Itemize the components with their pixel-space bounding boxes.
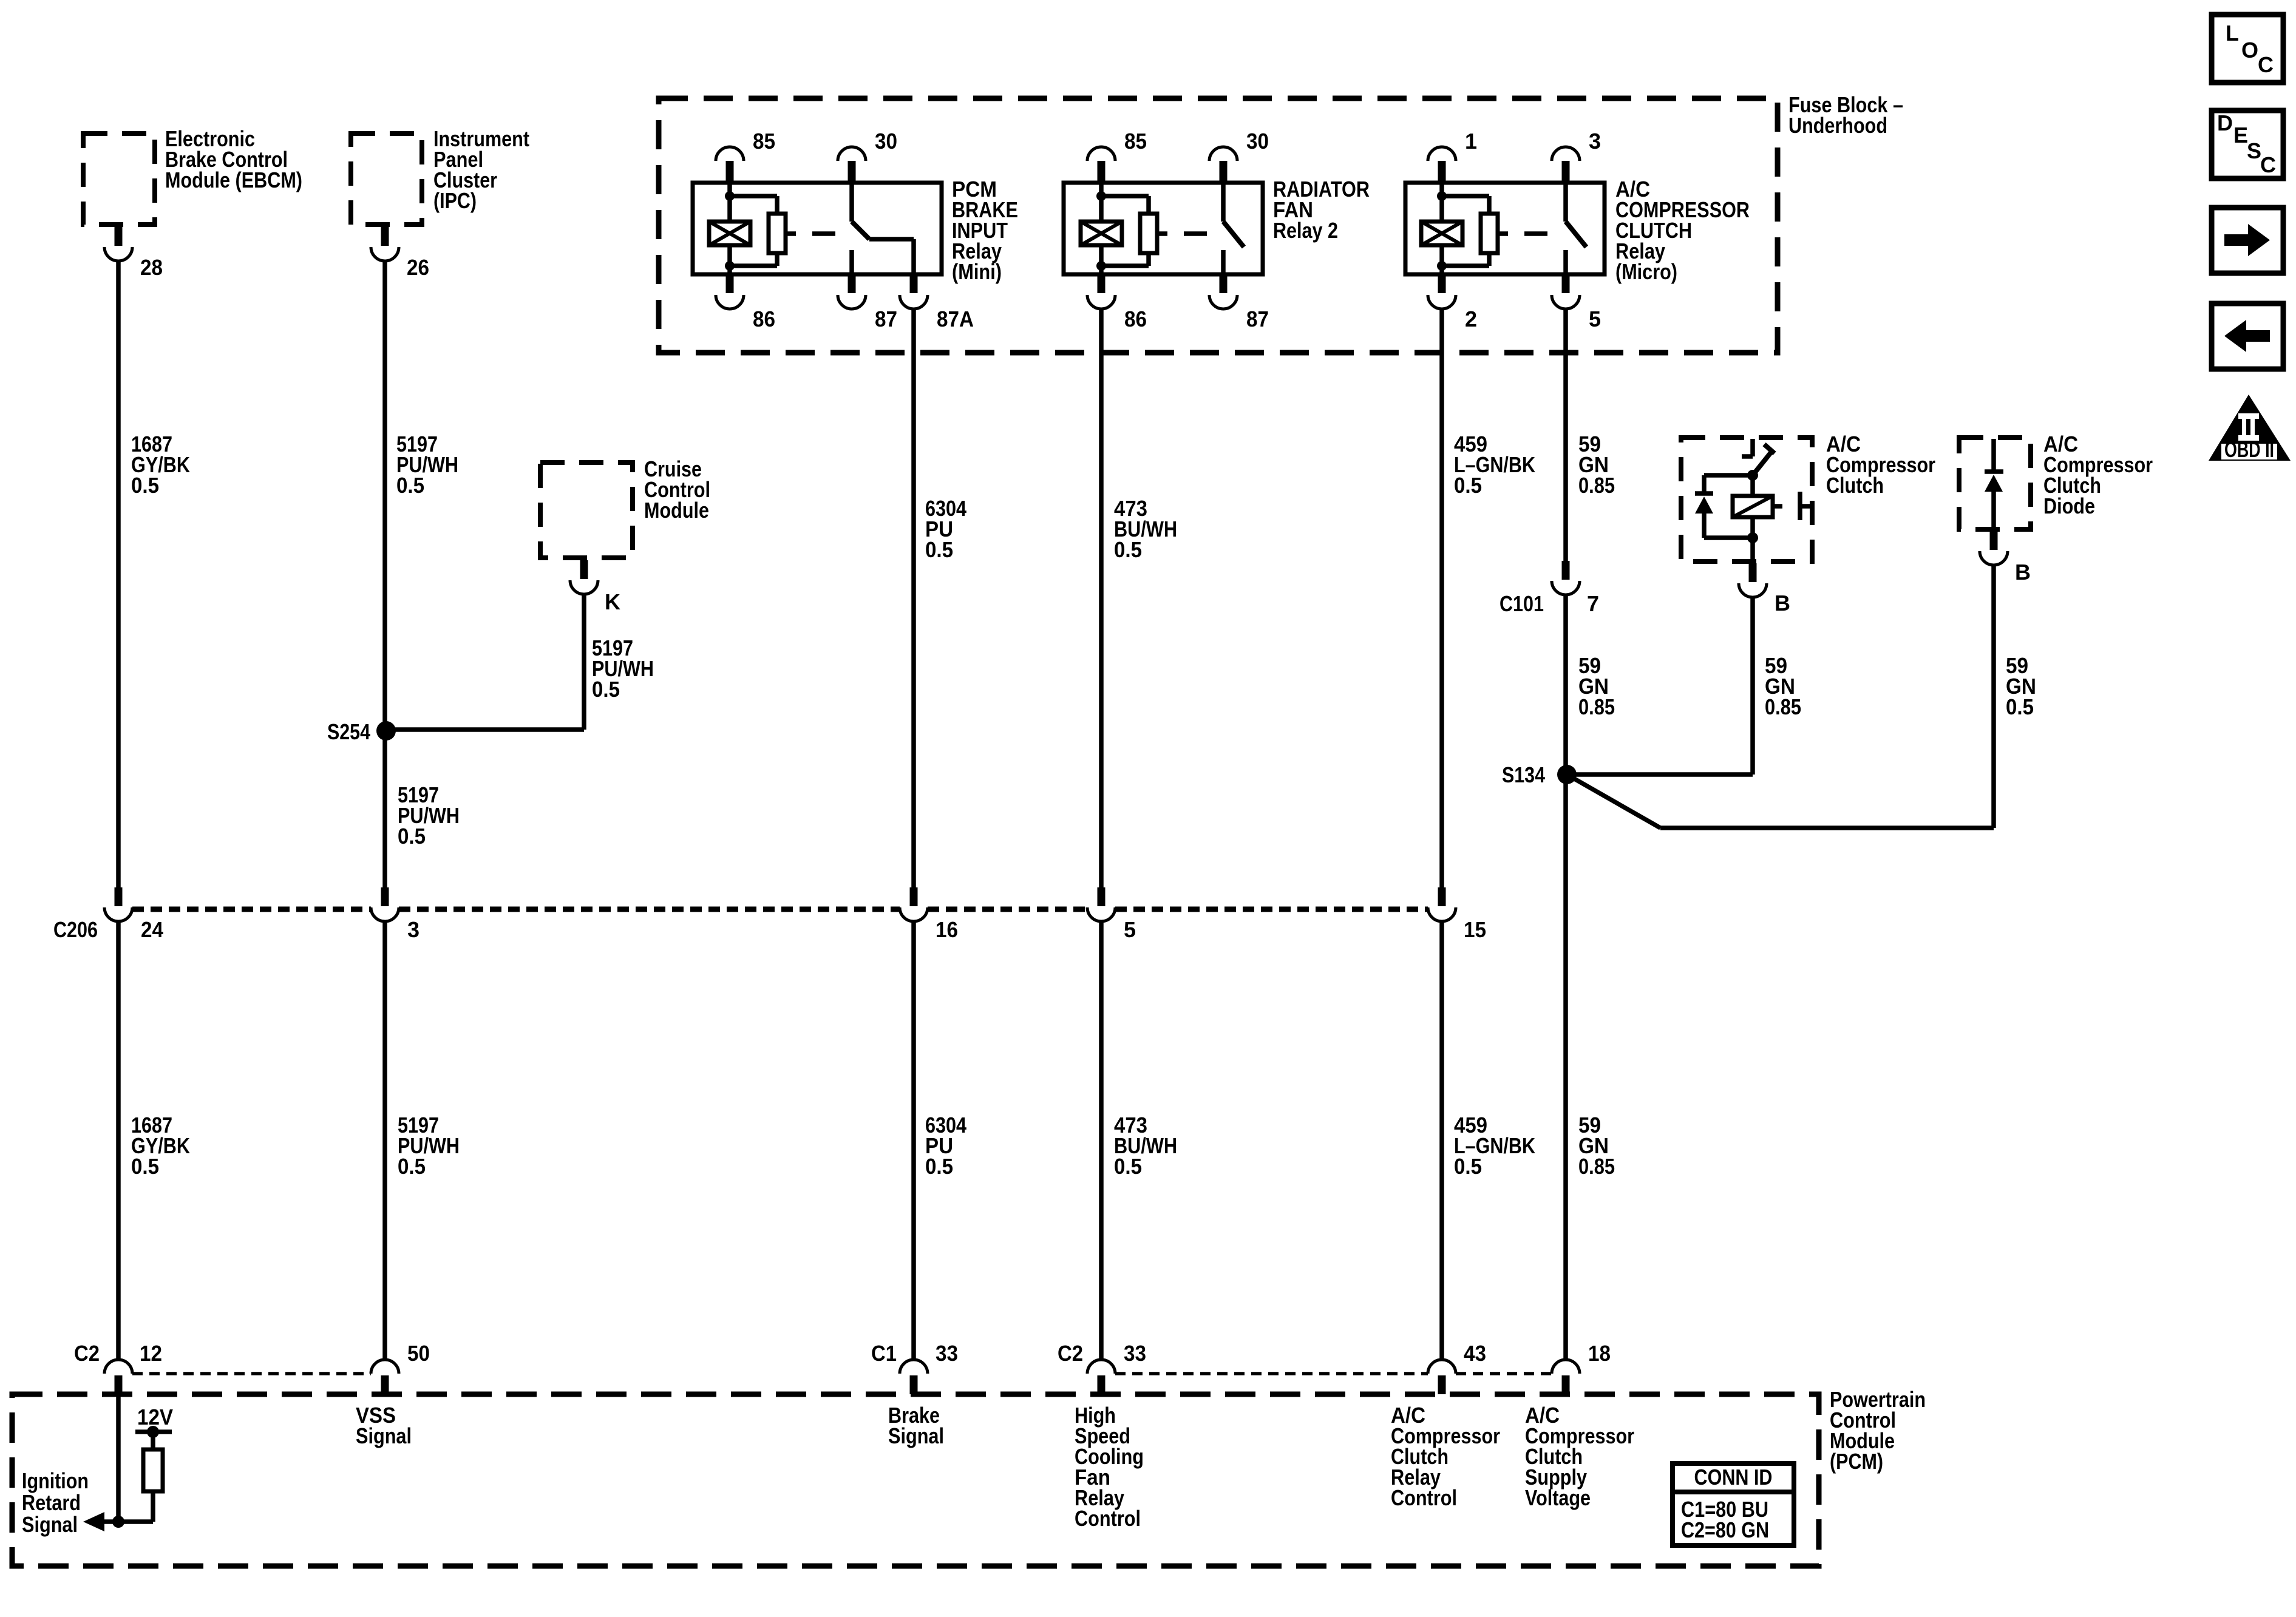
svg-text:86: 86 xyxy=(753,307,775,331)
module EBCM xyxy=(83,134,155,225)
pin 3 terminal xyxy=(1552,147,1580,161)
svg-text:85: 85 xyxy=(753,129,775,154)
svg-text:Underhood: Underhood xyxy=(1788,113,1887,138)
clutch frame tap xyxy=(1773,504,1782,509)
svg-text:28: 28 xyxy=(140,255,163,280)
relay switch RADIATOR FAN Relay 2 K2 xyxy=(1221,183,1226,222)
junction dots coil xyxy=(1437,191,1447,201)
svg-text:1: 1 xyxy=(1465,129,1477,154)
svg-text:2: 2 xyxy=(1465,307,1477,331)
relay resistor A/C COMPRESSOR CLUTCH Relay (Micro) K3 xyxy=(1442,194,1489,198)
wire 1687 GY/BK (EBCM to C206-24) xyxy=(116,260,121,887)
connector pin B (clutch) xyxy=(1749,563,1757,582)
svg-text:86: 86 xyxy=(1124,307,1147,331)
svg-text:C101: C101 xyxy=(1500,591,1544,616)
svg-text:Relay 2: Relay 2 xyxy=(1273,218,1338,243)
relay coil A/C COMPRESSOR CLUTCH Relay (Micro) K3 xyxy=(1439,183,1444,222)
diode symbol xyxy=(1991,439,1996,472)
svg-text:(Mini): (Mini) xyxy=(952,259,1002,284)
wire below C206 pin 5 xyxy=(1099,921,1104,1360)
connector C206 pin 5 xyxy=(1098,887,1106,906)
connector C206 pin 3 xyxy=(381,887,389,906)
svg-text:87A: 87A xyxy=(937,307,974,331)
pin 1 terminal xyxy=(1428,147,1456,161)
svg-text:Signal: Signal xyxy=(356,1423,412,1448)
connector C206 pin 15 xyxy=(1438,887,1446,906)
svg-text:CONN ID: CONN ID xyxy=(1694,1465,1773,1490)
pin 2 terminal xyxy=(1438,274,1446,293)
svg-text:0.5: 0.5 xyxy=(1114,1154,1142,1179)
relay: RADIATOR FAN Relay 2 K2 xyxy=(1064,183,1263,274)
svg-text:(IPC): (IPC) xyxy=(433,188,477,213)
svg-text:0.5: 0.5 xyxy=(925,537,953,562)
relay switch A/C COMPRESSOR CLUTCH Relay (Micro) K3 xyxy=(1563,183,1568,222)
PCM connector pin 12 xyxy=(104,1360,132,1374)
svg-text:S134: S134 xyxy=(1502,762,1545,787)
svg-text:Ignition: Ignition xyxy=(22,1468,89,1493)
svg-text:15: 15 xyxy=(1464,917,1486,942)
svg-text:43: 43 xyxy=(1464,1341,1486,1366)
linkage dash xyxy=(786,231,796,236)
clutch pin B xyxy=(1750,538,1755,563)
icon DESC xyxy=(2212,110,2283,178)
connector pin 28 (EBCM) xyxy=(115,227,123,246)
svg-text:85: 85 xyxy=(1124,129,1147,154)
svg-text:16: 16 xyxy=(936,917,958,942)
svg-text:12V: 12V xyxy=(137,1405,173,1429)
PCM connector pin 33 xyxy=(1087,1360,1115,1374)
svg-text:C206: C206 xyxy=(53,917,98,942)
pin 86 terminal xyxy=(1098,274,1106,293)
svg-text:0.5: 0.5 xyxy=(398,824,426,849)
icon OBD II triangle xyxy=(2209,395,2291,461)
svg-text:(Micro): (Micro) xyxy=(1615,259,1677,284)
svg-text:0.85: 0.85 xyxy=(1578,694,1615,719)
svg-text:24: 24 xyxy=(141,917,163,942)
pin 87 terminal xyxy=(1220,274,1228,293)
12V supply bar xyxy=(135,1429,172,1434)
module IPC xyxy=(351,134,422,225)
splice S134 xyxy=(1557,765,1577,784)
svg-text:87: 87 xyxy=(875,307,897,331)
svg-text:3: 3 xyxy=(407,917,419,942)
svg-text:C1: C1 xyxy=(871,1341,897,1366)
svg-text:26: 26 xyxy=(407,255,429,280)
svg-text:30: 30 xyxy=(875,129,897,154)
pin 30 terminal xyxy=(838,147,866,161)
svg-text:L: L xyxy=(2226,21,2239,46)
svg-text:C: C xyxy=(2260,152,2276,177)
PCM connector pin 18 xyxy=(1552,1360,1580,1374)
svg-text:O: O xyxy=(2241,38,2258,63)
junction dots coil xyxy=(1096,191,1106,201)
svg-text:Control: Control xyxy=(1075,1506,1141,1531)
wire 6304 PU (relay1 87A to C206-16) xyxy=(911,309,916,887)
svg-text:0.5: 0.5 xyxy=(398,1154,426,1179)
svg-text:0.5: 0.5 xyxy=(592,677,620,702)
splice S254 xyxy=(376,721,396,741)
wire below C206 pin 15 xyxy=(1439,921,1444,1360)
PCM connector pin 43 xyxy=(1428,1360,1456,1374)
module Cruise Control xyxy=(540,463,633,558)
svg-text:0.5: 0.5 xyxy=(1454,473,1482,498)
svg-text:0.85: 0.85 xyxy=(1578,473,1615,498)
pin 85 terminal xyxy=(716,147,744,161)
linkage dash xyxy=(1498,231,1508,236)
CONN ID table xyxy=(1673,1463,1794,1545)
A/C Compressor Clutch Diode box xyxy=(1959,438,2031,529)
svg-text:87: 87 xyxy=(1246,307,1269,331)
svg-text:B: B xyxy=(1775,591,1790,615)
connector C206 pin 16 xyxy=(910,887,918,906)
clutch coil xyxy=(1750,475,1755,496)
wire 59 GN (diode B to S134) xyxy=(1991,565,1996,828)
PCM connector pin 50 xyxy=(371,1360,399,1374)
svg-text:Module (EBCM): Module (EBCM) xyxy=(165,168,302,192)
svg-text:C2=80 GN: C2=80 GN xyxy=(1681,1517,1769,1542)
junction dots coil xyxy=(725,191,735,201)
svg-text:0.5: 0.5 xyxy=(131,473,159,498)
svg-text:3: 3 xyxy=(1589,129,1601,154)
A/C Compressor Clutch box xyxy=(1681,438,1812,561)
svg-text:K: K xyxy=(605,589,620,614)
relay: A/C COMPRESSOR CLUTCH Relay (Micro) K3 xyxy=(1405,183,1605,274)
wire 5197 PU/WH (IPC to S254 to C206-3) xyxy=(382,260,387,887)
PCM connector row dotted line xyxy=(132,1372,371,1375)
svg-text:0.5: 0.5 xyxy=(131,1154,159,1179)
icon arrow left xyxy=(2212,303,2283,369)
svg-text:33: 33 xyxy=(936,1341,958,1366)
connector pin B (diode) xyxy=(1990,531,1998,550)
linkage dash xyxy=(1157,231,1167,236)
svg-text:7: 7 xyxy=(1587,591,1599,616)
wire 59 GN (relay3 pin5 to C101) xyxy=(1563,309,1568,561)
svg-text:50: 50 xyxy=(407,1341,430,1366)
wire 459 L-GN/BK (relay3 pin2 to C206-15) xyxy=(1439,309,1444,887)
svg-text:0.5: 0.5 xyxy=(925,1154,953,1179)
svg-text:S: S xyxy=(2247,138,2261,163)
svg-text:Control: Control xyxy=(1391,1485,1457,1510)
resistor (pull-up) xyxy=(151,1432,155,1449)
svg-text:Module: Module xyxy=(644,498,709,523)
connector C206 row line xyxy=(132,907,371,912)
svg-text:5: 5 xyxy=(1589,307,1601,331)
svg-text:Retard: Retard xyxy=(22,1490,81,1515)
pin 85 terminal xyxy=(1087,147,1115,161)
pin 30 terminal xyxy=(1209,147,1237,161)
relay coil PCM BRAKE INPUT Relay (Mini) K1 xyxy=(727,183,732,222)
svg-text:Clutch: Clutch xyxy=(1826,473,1884,498)
connector C101 pin 7 xyxy=(1562,561,1570,580)
pin 5 terminal xyxy=(1562,274,1570,293)
svg-text:Diode: Diode xyxy=(2043,493,2095,518)
wire 473 BU/WH (relay2 86 to C206-5) xyxy=(1099,309,1104,887)
svg-text:E: E xyxy=(2233,123,2248,147)
ignition retard signal arrow xyxy=(102,1519,153,1524)
svg-text:Voltage: Voltage xyxy=(1525,1485,1591,1510)
relay coil RADIATOR FAN Relay 2 K2 xyxy=(1099,183,1104,222)
svg-text:0.5: 0.5 xyxy=(396,473,424,498)
svg-text:OBD II: OBD II xyxy=(2224,437,2274,462)
svg-text:Signal: Signal xyxy=(888,1423,944,1448)
connector pin K (cruise) xyxy=(580,560,588,579)
clutch switch xyxy=(1750,439,1755,456)
svg-text:C2: C2 xyxy=(74,1341,100,1366)
fuse block underhood box xyxy=(659,98,1778,353)
pin 87A terminal xyxy=(910,274,918,293)
icon LOC xyxy=(2212,15,2283,83)
wire 59 GN (C101 to S134) xyxy=(1563,595,1568,1360)
Powertrain Control Module box xyxy=(12,1394,1819,1566)
wire 59 GN (clutch B to S134) xyxy=(1750,597,1755,775)
svg-text:(PCM): (PCM) xyxy=(1830,1449,1883,1474)
svg-text:0.5: 0.5 xyxy=(2006,694,2034,719)
svg-text:B: B xyxy=(2015,560,2031,585)
svg-text:0.5: 0.5 xyxy=(1114,537,1142,562)
svg-text:5: 5 xyxy=(1124,917,1136,942)
svg-text:30: 30 xyxy=(1246,129,1269,154)
wire below C206 pin 24 xyxy=(116,921,121,1360)
svg-text:0.85: 0.85 xyxy=(1765,694,1801,719)
svg-text:Signal: Signal xyxy=(22,1512,78,1537)
svg-text:12: 12 xyxy=(140,1341,162,1366)
wire 5197 PU/WH (cruise K to S254) xyxy=(582,594,586,730)
svg-text:0.85: 0.85 xyxy=(1578,1154,1615,1179)
connector C206 pin 24 xyxy=(115,887,123,906)
pin 87 terminal xyxy=(848,274,856,293)
relay resistor RADIATOR FAN Relay 2 K2 xyxy=(1101,194,1149,198)
svg-text:18: 18 xyxy=(1588,1341,1611,1366)
svg-text:33: 33 xyxy=(1124,1341,1146,1366)
svg-text:D: D xyxy=(2217,110,2233,135)
wire below C206 pin 3 xyxy=(382,921,387,1360)
svg-text:C: C xyxy=(2258,52,2274,77)
wire 12 into PCM xyxy=(116,1394,121,1522)
relay resistor PCM BRAKE INPUT Relay (Mini) K1 xyxy=(730,194,777,198)
relay: PCM BRAKE INPUT Relay (Mini) K1 xyxy=(693,183,942,274)
pin 86 terminal xyxy=(726,274,734,293)
svg-text:C2: C2 xyxy=(1058,1341,1083,1366)
wire below C206 pin 16 xyxy=(911,921,916,1360)
icon arrow right xyxy=(2212,208,2283,273)
PCM connector pin 33 xyxy=(900,1360,928,1374)
clutch diode branch xyxy=(1704,473,1753,478)
svg-text:0.5: 0.5 xyxy=(1454,1154,1482,1179)
svg-text:S254: S254 xyxy=(327,719,370,744)
relay switch PCM BRAKE INPUT Relay (Mini) K1 xyxy=(849,183,854,222)
connector pin 26 (IPC) xyxy=(381,227,389,246)
